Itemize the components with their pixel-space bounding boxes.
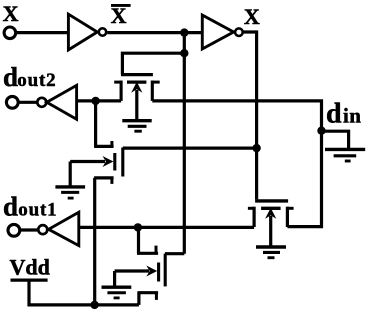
node dot Vdd rail <box>90 301 98 309</box>
source tick Q3 <box>155 246 158 254</box>
gate bar Q1 <box>121 73 153 76</box>
node dot X / Q2 drain <box>252 144 260 152</box>
svg-text:d: d <box>3 192 18 222</box>
terminal X <box>4 27 16 39</box>
source plate Q2 <box>94 145 114 148</box>
ground d_in <box>325 149 365 161</box>
label dout2 <box>3 62 56 92</box>
bulk arrow Q1 <box>135 90 138 121</box>
source tick Q4 <box>248 207 255 210</box>
wire Xbar main vertical <box>183 33 186 254</box>
wire Q1 drain to d_in <box>152 101 321 227</box>
svg-text:X: X <box>244 4 260 29</box>
ground Q2 <box>55 187 85 198</box>
transistor Q4 (right, arrow up) <box>248 201 294 247</box>
node dot Xbar top <box>180 28 188 36</box>
label X-bar <box>111 3 131 28</box>
ground Q3 <box>102 287 132 298</box>
wire U1 output to U2 input <box>107 31 202 34</box>
source lead Q3 (up to dot) <box>137 227 140 253</box>
channel bar Q4 <box>261 207 281 210</box>
source plate Q3 <box>137 252 158 255</box>
label d_in <box>326 99 361 130</box>
svg-text:d: d <box>326 99 342 130</box>
svg-text:out1: out1 <box>18 200 57 221</box>
label dout1 <box>3 192 57 222</box>
svg-text:Vdd: Vdd <box>10 255 50 280</box>
svg-text:in: in <box>343 104 361 128</box>
wire Q2 drain to X node <box>123 147 257 150</box>
wire U3 input / Q1 source <box>77 99 122 102</box>
gate bar Q3 <box>157 263 160 282</box>
wire dout1 row <box>79 226 254 229</box>
gate bar Q2 <box>113 153 116 171</box>
inverter U2 <box>202 15 233 49</box>
bottom lead Q3 <box>137 293 140 305</box>
bulk arrow Q4 <box>269 216 272 247</box>
terminal dout2 <box>6 96 18 108</box>
bubble U3 output <box>37 98 46 107</box>
ground Q4 <box>256 247 286 258</box>
node dot d_in <box>317 127 325 135</box>
wire X terminal to inverter U1 <box>16 31 69 34</box>
inverter U4 (points left) <box>49 212 79 245</box>
drain plate Q3 (bottom) <box>137 291 158 294</box>
transistor Q1 (top middle) <box>114 75 160 121</box>
bulk arrow Q2 <box>70 160 105 163</box>
wire Vdd to rail <box>29 280 139 305</box>
transistor Q2 (middle left, rotated) <box>70 101 123 187</box>
bubble U2 output <box>235 28 243 36</box>
drain tick Q3 <box>155 293 158 300</box>
inverter U1 <box>68 14 97 50</box>
bulk arrow Q3 <box>115 269 149 272</box>
wire U2 output down to Q4 gate <box>244 32 257 199</box>
drain tick Q4 <box>287 207 294 210</box>
svg-text:X: X <box>3 1 19 26</box>
source plate Q1 <box>120 81 123 101</box>
svg-text:out2: out2 <box>17 70 56 91</box>
transistor Q3 (bottom middle, rotated) <box>115 227 166 305</box>
inverter U3 (points left) <box>47 85 77 119</box>
wire dout2 terminal to bubble <box>18 101 37 104</box>
source plate Q4 <box>253 207 256 227</box>
drain plate bar Q3 <box>164 254 167 287</box>
node dot Xbar to Q1 gate <box>180 49 188 57</box>
drain plate Q2 <box>121 148 124 177</box>
node dot Q3 source <box>134 223 142 231</box>
drain plate Q1 <box>151 81 154 101</box>
drain tick Q2 / bottom plate <box>94 176 114 179</box>
source tick Q1 <box>114 81 121 84</box>
wire Xbar to Q1 gate <box>122 53 184 74</box>
drain tick Q1 <box>152 81 160 84</box>
terminal Vdd bar <box>11 279 48 282</box>
wire Q2 bottom to Vdd rail <box>93 178 96 305</box>
svg-text:d: d <box>3 62 18 92</box>
wire dout1 terminal to bubble <box>20 228 38 231</box>
source tick Q2 <box>110 141 113 147</box>
node dot Q2 source <box>91 97 99 105</box>
bubble U4 output <box>38 225 47 234</box>
wire jog to Q3 drain <box>165 252 184 255</box>
bubble U1 output <box>99 28 106 35</box>
channel bar Q1 <box>127 80 146 83</box>
ground Q1 <box>122 121 151 132</box>
drain plate Q4 <box>286 207 289 227</box>
terminal dout1 <box>8 224 20 236</box>
wire d_in to ground <box>322 131 349 148</box>
source lead Q2 (up) <box>94 101 97 146</box>
gate bar Q4 <box>255 199 288 202</box>
